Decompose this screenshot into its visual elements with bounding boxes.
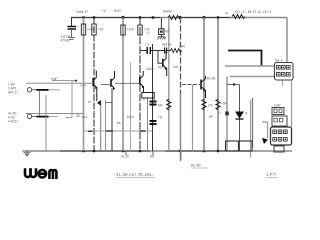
svg-text:1%: 1%: [208, 104, 213, 108]
svg-text:+04: +04: [221, 102, 227, 106]
svg-text:AP2 1+: AP2 1+: [8, 91, 19, 95]
svg-text:+l: +l: [218, 111, 221, 115]
svg-text:54!: 54!: [150, 155, 155, 159]
svg-text:4p3 4o: 4p3 4o: [162, 43, 172, 47]
svg-text:4r: 4r: [225, 12, 229, 16]
svg-text:5wDk+: 5wDk+: [163, 10, 173, 14]
svg-text:54!: 54!: [158, 104, 163, 108]
svg-text:a4: a4: [209, 115, 213, 119]
svg-text:a+: a+: [88, 100, 92, 104]
svg-text:4D: 4D: [165, 30, 170, 34]
svg-text:s+R: s+R: [80, 84, 86, 88]
svg-text:1w!: 1w!: [173, 65, 178, 69]
svg-text:+1CF: +1CF: [127, 28, 135, 32]
svg-text:a: a: [246, 111, 248, 115]
svg-text:4L 30.: 4L 30.: [121, 155, 130, 159]
svg-text:4 N21+: 4 N21+: [8, 120, 19, 124]
svg-text:+(: +(: [146, 31, 150, 35]
svg-text:1mP: 1mP: [274, 104, 281, 108]
svg-text:+7D: +7D: [98, 28, 105, 32]
svg-text:1mW 4T: 1mW 4T: [76, 10, 88, 14]
svg-text:+: +: [77, 25, 79, 29]
svg-text:1n04: 1n04: [127, 115, 134, 119]
svg-text:1w04: 1w04: [146, 67, 154, 71]
svg-text:+7CF: +7CF: [87, 28, 95, 32]
svg-text:4L.39.A2! 7E.2M: 4L.39.A2! 7E.2M: [116, 172, 151, 177]
svg-text:ML 45!: ML 45!: [191, 164, 201, 168]
svg-text:+1(: +1(: [158, 115, 164, 119]
svg-text:5+b+: 5+b+: [114, 9, 121, 13]
svg-text:4C-0E: 4C-0E: [207, 77, 216, 81]
svg-text:+A4: +A4: [179, 45, 185, 49]
svg-text:J.P.T: J.P.T: [266, 172, 277, 177]
svg-text:1 p: 1 p: [145, 43, 150, 47]
svg-text:1mF: 1mF: [51, 77, 57, 81]
svg-text:4w: 4w: [117, 121, 122, 125]
svg-text:+|+: +|+: [102, 9, 107, 13]
svg-text:82!: 82!: [76, 114, 81, 118]
svg-text:5w_k: 5w_k: [275, 59, 283, 63]
svg-text:4T4: 4T4: [82, 116, 88, 120]
svg-text:OL 4; M.O-D-O+1: OL 4; M.O-D-O+1: [235, 9, 272, 14]
svg-text:47mfd: 47mfd: [61, 39, 70, 43]
svg-text:+: +: [143, 98, 145, 102]
svg-text:TeT3: TeT3: [158, 66, 165, 70]
